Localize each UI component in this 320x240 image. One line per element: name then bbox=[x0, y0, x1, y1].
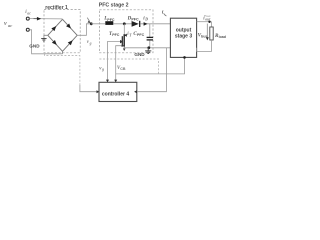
svg-text:rectifier 1: rectifier 1 bbox=[45, 5, 68, 11]
label i_ac bbox=[25, 9, 31, 15]
svg-text:PFC: PFC bbox=[112, 33, 120, 37]
node: load top junction dot bbox=[208, 21, 210, 23]
node g junction dot bbox=[90, 22, 93, 25]
wire: B junction to output box bottom bbox=[116, 57, 185, 74]
svg-text:T: T bbox=[129, 33, 132, 37]
wire: top input wire bbox=[29, 18, 62, 20]
label T_PFC bbox=[109, 32, 120, 37]
svg-text:load: load bbox=[219, 35, 226, 39]
ground symbol (rectifier) bbox=[41, 39, 46, 42]
wire: output box to load bbox=[197, 21, 212, 23]
bridge diode arrow: bottom->right bbox=[68, 40, 73, 45]
current arrow i_ac on wire bbox=[34, 18, 41, 20]
wire: load top lead bbox=[211, 22, 213, 27]
label V_ac bbox=[4, 20, 12, 28]
wire: right vertex to rail riser bbox=[77, 24, 91, 36]
wire: bridge bottom vertex drop bbox=[62, 51, 64, 54]
label i_D bbox=[143, 16, 148, 21]
label v_g (controller input A) bbox=[99, 66, 104, 71]
wire B: source/V_CB line bbox=[116, 46, 124, 82]
svg-text:ac: ac bbox=[27, 11, 31, 16]
svg-text:stage 3: stage 3 bbox=[175, 34, 192, 40]
resistor R_load bbox=[210, 27, 213, 40]
PFC stage 2 dashed box bbox=[99, 10, 153, 53]
node: output box bottom junction dot bbox=[183, 56, 186, 59]
svg-text:PFC: PFC bbox=[107, 18, 115, 22]
label i_out with arrow bbox=[203, 15, 211, 21]
svg-text:i: i bbox=[162, 9, 164, 15]
svg-text:PFC stage 2: PFC stage 2 bbox=[99, 3, 129, 9]
svg-text:GND: GND bbox=[134, 52, 145, 57]
wire: PFC ground rail bbox=[124, 47, 170, 49]
node: input terminal top bbox=[26, 17, 29, 20]
wire: controller right to rail riser bbox=[137, 48, 167, 92]
label i_T bbox=[127, 32, 132, 37]
rectifier 1 dashed box bbox=[44, 10, 80, 53]
bridge diode arrow: left->top bbox=[51, 26, 56, 31]
wire: inductor to drain node bbox=[114, 23, 132, 25]
capacitor C_PFC bbox=[149, 24, 151, 37]
current arrow into node g bbox=[87, 18, 89, 21]
node: input terminal bottom bbox=[26, 28, 29, 31]
bridge diode arrow: left->bottom bbox=[52, 40, 57, 45]
wire: load bottom return bbox=[197, 40, 212, 51]
label D_PFC bbox=[127, 16, 139, 21]
node: T_PFC drain junction dot bbox=[123, 22, 126, 25]
svg-text:controller 4: controller 4 bbox=[102, 91, 129, 97]
label C_PFC bbox=[133, 32, 144, 37]
wire: left vertex to ground stub bbox=[44, 35, 48, 38]
output stage 3 box bbox=[170, 18, 196, 57]
svg-text:PFC: PFC bbox=[137, 33, 145, 37]
wire: rail node g to inductor bbox=[91, 23, 105, 25]
wire: bottom input wire bbox=[29, 30, 62, 54]
svg-text:g: g bbox=[101, 68, 104, 72]
bridge rectifier diamond bbox=[48, 19, 77, 51]
voltage arrow V_bus bbox=[206, 24, 208, 38]
svg-text:output: output bbox=[176, 27, 192, 33]
svg-text:D: D bbox=[144, 18, 148, 22]
controller 4 box bbox=[99, 82, 137, 101]
sense dashed line (v_ac to controller) bbox=[45, 54, 80, 85]
label v_g (below node) bbox=[87, 40, 92, 45]
svg-text:GND: GND bbox=[29, 43, 40, 48]
label R_load bbox=[215, 33, 226, 39]
MOSFET T_PFC bbox=[123, 24, 125, 35]
inductor L_PFC (solid bar) bbox=[105, 21, 113, 25]
bridge diode arrow: top->right bbox=[66, 23, 71, 28]
svg-text:g: g bbox=[89, 41, 92, 45]
ground symbol (PFC rail) bbox=[147, 48, 149, 51]
current squiggle label i (before output box) bbox=[162, 9, 167, 16]
label L_PFC bbox=[103, 17, 115, 22]
label V_bus bbox=[198, 33, 208, 39]
sense dashed line (PFC box to lower node) bbox=[99, 59, 158, 74]
svg-text:CB: CB bbox=[120, 67, 126, 71]
svg-text:ac: ac bbox=[8, 23, 12, 28]
label V_CB bbox=[117, 66, 126, 71]
svg-text:PFC: PFC bbox=[131, 18, 139, 22]
wire: diode to output box bbox=[140, 23, 170, 25]
diode D_PFC bbox=[132, 21, 139, 27]
wire: sense line into controller left bbox=[80, 85, 99, 92]
node: cap top junction dot bbox=[144, 22, 148, 26]
node: rail cap junction dot bbox=[147, 46, 150, 49]
svg-text:bus: bus bbox=[201, 35, 207, 39]
svg-text:v: v bbox=[4, 20, 7, 27]
wire A: gate drive (controller to T_PFC gate) bbox=[108, 42, 122, 83]
